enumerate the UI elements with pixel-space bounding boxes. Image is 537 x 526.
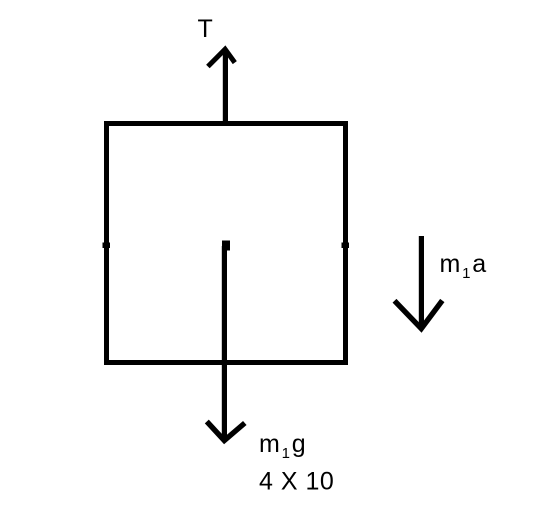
svg-text:4 X 10: 4 X 10 (259, 468, 334, 496)
acceleration arrow m1a head (395, 301, 443, 329)
left edge tick (103, 243, 111, 249)
center point node (222, 241, 230, 251)
weight arrow m1g (downward) stem (222, 246, 227, 439)
acceleration arrow m1a (downward) stem (419, 236, 424, 328)
weight arrow m1g head (207, 422, 245, 441)
right edge tick (342, 243, 350, 249)
mass box m1 (107, 124, 346, 363)
svg-text:m1g: m1g (259, 430, 308, 462)
svg-text:T: T (198, 15, 213, 43)
tension arrow T head (208, 49, 235, 66)
svg-text:m1a: m1a (440, 250, 489, 282)
tension arrow T (upward) stem (223, 49, 228, 122)
